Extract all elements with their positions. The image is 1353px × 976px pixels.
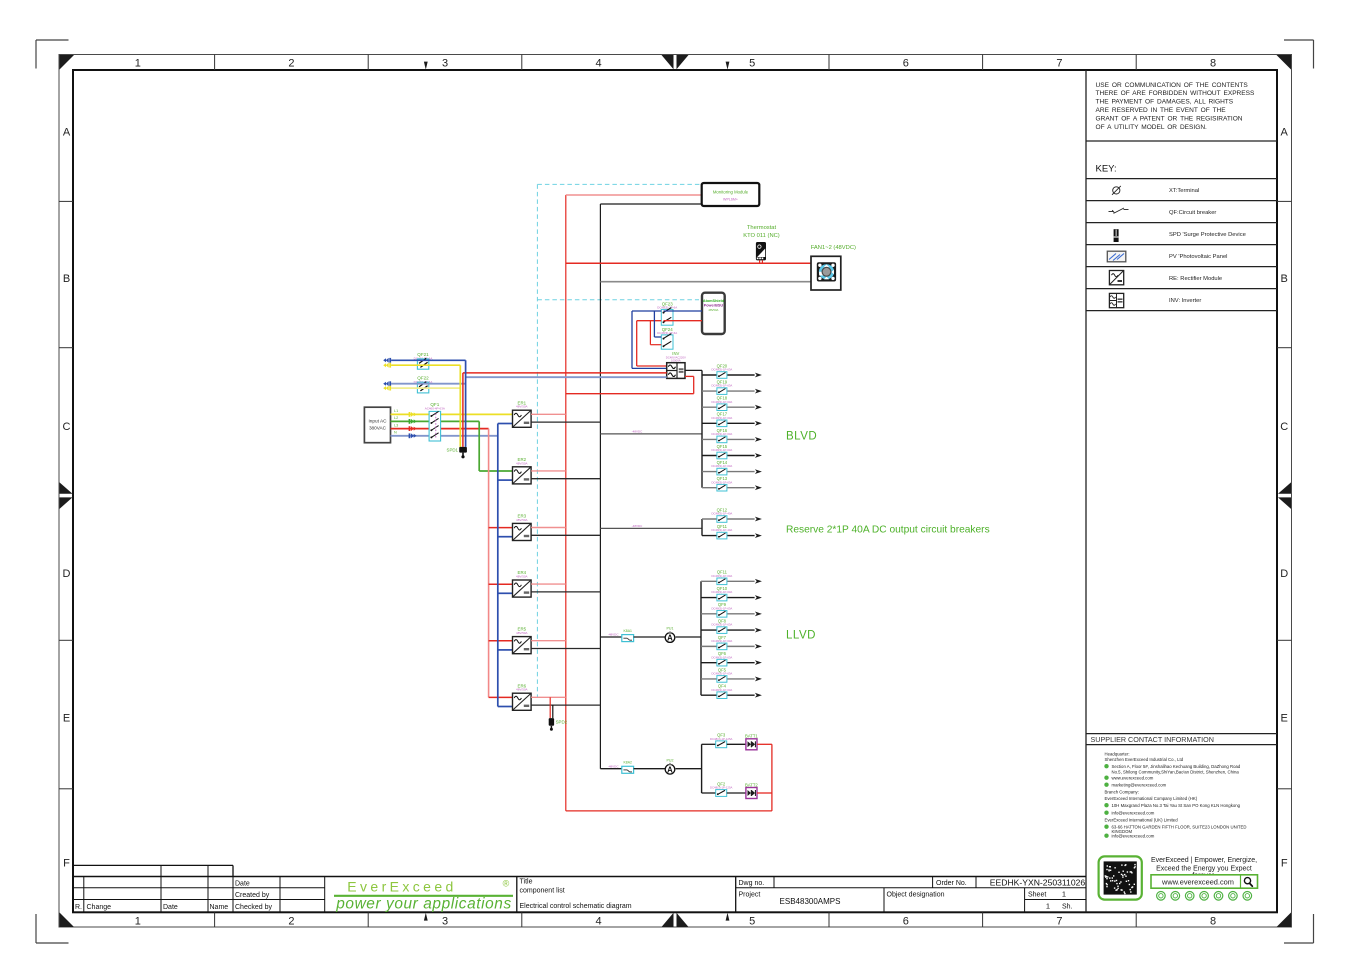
svg-text:A: A <box>667 765 673 774</box>
wire ER3 output - <box>531 534 600 536</box>
svg-text:marketing@everexceed.com: marketing@everexceed.com <box>1112 783 1167 788</box>
centering marks <box>662 55 674 69</box>
svg-text:DC48(3)-1P-63A: DC48(3)-1P-63A <box>711 639 732 643</box>
circuit breaker QF9 output <box>701 602 762 617</box>
svg-text:48V/50A: 48V/50A <box>516 688 528 692</box>
svg-text:KEY:: KEY: <box>1096 164 1117 175</box>
svg-text:EverExceed International (UK: EverExceed International (UK) Limited <box>1105 818 1179 823</box>
svg-text:A: A <box>63 127 71 139</box>
revision table <box>73 864 233 866</box>
svg-text:XT:Terminal: XT:Terminal <box>1169 188 1199 194</box>
svg-text:BATT1: BATT1 <box>745 734 758 739</box>
svg-text:AtomShield: AtomShield <box>703 299 725 303</box>
key symbol RE rectifier <box>1109 271 1123 285</box>
svg-text:10H Maxgrand Plaza No.3 Ta: 10H Maxgrand Plaza No.3 Tai Yau St San P… <box>1112 803 1241 808</box>
svg-text:DC48(3)-1P-63A: DC48(3)-1P-63A <box>711 480 732 484</box>
KEY header box <box>1086 178 1277 180</box>
svg-text:Reserve 2*1P 40A DC output cir: Reserve 2*1P 40A DC output circuit break… <box>786 525 990 536</box>
svg-text:KTO 011 (NC): KTO 011 (NC) <box>743 233 780 239</box>
reserve feeder wire <box>600 527 702 529</box>
svg-text:SPD 'Surge Protective Device: SPD 'Surge Protective Device <box>1169 232 1246 238</box>
circuit breaker QF12 output <box>702 507 762 522</box>
key symbol INV inverter <box>1109 293 1123 307</box>
wire QF24 feed blue <box>653 311 655 337</box>
circuit breaker QF5 output <box>701 667 762 682</box>
wire QF23 to battery monitor (blue) <box>664 310 703 312</box>
wire N to ER1 <box>498 423 513 425</box>
QF21 connectors <box>383 358 390 368</box>
svg-text:DC48(3)-1P-63A: DC48(3)-1P-63A <box>711 688 732 692</box>
svg-text:L3: L3 <box>394 423 398 427</box>
phase labels <box>394 409 398 434</box>
svg-text:Title: Title <box>520 878 533 885</box>
negative DC bus (black) wire <box>599 204 601 769</box>
svg-text:7: 7 <box>1056 916 1062 928</box>
svg-text:PU2: PU2 <box>667 758 674 762</box>
title block outer lines <box>73 876 1086 878</box>
svg-text:8: 8 <box>1210 916 1216 928</box>
wire ER3 output + <box>531 527 566 529</box>
wire N to ER3 <box>498 536 513 538</box>
circuit breaker QF4 output <box>701 684 762 699</box>
wire ER2 output - <box>531 478 600 480</box>
svg-text:Object designation: Object designation <box>887 891 945 898</box>
svg-text:DC48(3)-1P-63A: DC48(3)-1P-63A <box>711 606 732 610</box>
corner fold marks <box>60 55 75 70</box>
svg-text:Date: Date <box>235 880 250 887</box>
svg-text:F: F <box>1281 858 1288 870</box>
svg-text:FAN1~2 (48VDC): FAN1~2 (48VDC) <box>811 245 856 251</box>
svg-text:-48VDC: -48VDC <box>608 633 620 637</box>
AC input source box <box>364 407 390 443</box>
svg-text:ARE RESERVED IN THE EVENT OF T: ARE RESERVED IN THE EVENT OF THE <box>1096 107 1227 114</box>
BLVD feeder wire <box>600 433 702 435</box>
svg-text:BLVD: BLVD <box>786 431 817 443</box>
wire fan + (red) <box>566 262 811 264</box>
svg-text:SUPPLIER CONTACT INFORMATION: SUPPLIER CONTACT INFORMATION <box>1091 735 1214 744</box>
svg-text:Created by: Created by <box>235 892 270 899</box>
cabinet dashed boundary top <box>537 183 701 185</box>
wire L3 to ER3 <box>489 527 513 529</box>
LLVD distribution bus <box>700 581 702 695</box>
circuit breaker QF23 <box>657 301 677 325</box>
circuit breaker QF11 output <box>702 524 762 539</box>
wire ER1 output - <box>531 421 600 423</box>
svg-text:48V/50A: 48V/50A <box>516 631 528 635</box>
wire INV output black <box>685 369 702 371</box>
svg-text:INV: Inverter: INV: Inverter <box>1169 298 1201 304</box>
wire ER6 output + <box>531 696 566 698</box>
svg-text:L1: L1 <box>394 409 398 413</box>
dwg / order cells <box>735 877 737 913</box>
svg-text:-48VDC: -48VDC <box>608 764 620 768</box>
circuit breaker QF19 output <box>702 380 762 395</box>
svg-text:DC48(3)-1P-63A: DC48(3)-1P-63A <box>711 432 732 436</box>
svg-text:R.: R. <box>75 904 82 911</box>
svg-text:DC48(3)-1P-63A: DC48(3)-1P-63A <box>711 400 732 404</box>
svg-text:www.everexceed.com: www.everexceed.com <box>1161 877 1234 886</box>
svg-text:PV 'Photovoltaic Panel: PV 'Photovoltaic Panel <box>1169 254 1227 260</box>
wire ER1 output + <box>531 413 566 415</box>
circuit breaker QF24 <box>657 327 677 349</box>
svg-text:QF:Circuit breaker: QF:Circuit breaker <box>1169 210 1216 216</box>
BLVD distribution bus <box>701 370 703 487</box>
svg-text:D: D <box>1280 568 1288 580</box>
svg-text:-48VDC: -48VDC <box>632 524 644 528</box>
svg-text:THE PAYMENT OF DAMAGES, AL: THE PAYMENT OF DAMAGES, ALL RIGHTS <box>1096 99 1234 106</box>
wire ER4 output - <box>531 591 600 593</box>
svg-text:Change: Change <box>87 904 112 911</box>
svg-text:USE OR COMMUNICATION OF TH: USE OR COMMUNICATION OF THE CONTENTS <box>1096 82 1249 89</box>
shunt K8A1 <box>622 629 634 642</box>
svg-text:GRANT OF A PATENT OR THE: GRANT OF A PATENT OR THE REGISIRATION <box>1096 115 1243 122</box>
svg-text:Name: Name <box>210 904 229 911</box>
wire QF22 blue <box>391 383 466 385</box>
circuit breaker QF11 output <box>701 570 762 585</box>
project cells <box>883 888 885 913</box>
wire QF24 feed red <box>649 321 651 345</box>
wire ammeter2 to battery bus <box>676 768 702 770</box>
surge protective device SPD1 <box>447 447 467 459</box>
wire N (blue) <box>391 435 498 437</box>
circuit breaker QF21 <box>414 352 433 369</box>
QF22 connectors <box>383 381 390 390</box>
rectifier module ER5 <box>513 627 532 654</box>
svg-text:DC48(3)-1P-63A: DC48(3)-1P-63A <box>711 574 732 578</box>
wire L3 to ER6 <box>489 696 513 698</box>
svg-text:A: A <box>667 634 673 643</box>
svg-text:6: 6 <box>903 58 909 70</box>
svg-text:DC48(3)-1P-63A: DC48(3)-1P-63A <box>711 384 732 388</box>
wire L3 (red) <box>391 428 489 430</box>
svg-text:DC48(3)-1P-125A: DC48(3)-1P-125A <box>710 786 733 790</box>
svg-text:SPD1: SPD1 <box>447 447 459 452</box>
riser blue N to rectifiers <box>497 424 499 707</box>
trim marks <box>36 39 69 41</box>
svg-text:component list: component list <box>520 887 565 894</box>
svg-text:Project: Project <box>739 891 761 898</box>
shunt K8A2 <box>622 761 634 774</box>
svg-text:Order No.: Order No. <box>936 880 967 887</box>
wire to monitoring module + <box>566 194 702 196</box>
wire INV output red loop <box>685 375 694 377</box>
svg-text:Monitoring Module: Monitoring Module <box>713 190 749 195</box>
wire ER5 output - <box>531 648 600 650</box>
svg-text:C: C <box>1280 421 1288 433</box>
inverter INV <box>666 351 686 378</box>
wire L3 to ER4 <box>489 583 513 585</box>
battery feeder wire <box>600 768 621 770</box>
wire shunt to ammeter <box>634 636 667 638</box>
wire QF21 blue <box>391 359 466 361</box>
svg-text:B: B <box>63 273 70 285</box>
svg-text:E: E <box>1281 712 1288 724</box>
svg-text:380VAC: 380VAC <box>369 426 387 431</box>
LLVD feeder wire with shunt and ammeter <box>600 636 621 638</box>
svg-text:Checked by: Checked by <box>235 904 272 911</box>
svg-text:DC48(3)-1P-63A: DC48(3)-1P-63A <box>711 590 732 594</box>
svg-text:www.everexceed.com: www.everexceed.com <box>1112 776 1154 781</box>
key symbol SPD <box>1114 229 1119 242</box>
svg-text:EverExceed: EverExceed <box>347 879 456 895</box>
right info panel frame <box>1085 70 1087 912</box>
svg-text:1000VA: 1000VA <box>671 358 681 362</box>
svg-text:Input AC: Input AC <box>369 419 388 424</box>
wire ER4 output + <box>531 583 566 585</box>
circuit breaker QF16 output <box>702 428 762 443</box>
svg-text:EverExceed | Empower, Energize: EverExceed | Empower, Energize, <box>1151 857 1257 864</box>
svg-text:DC48(3)-1P-63A: DC48(3)-1P-63A <box>711 672 732 676</box>
thermostat KTO 011 <box>743 225 780 263</box>
svg-text:BATT2: BATT2 <box>745 782 758 787</box>
svg-text:Sh.: Sh. <box>1062 903 1073 910</box>
svg-text:D: D <box>63 568 71 580</box>
reserve distribution bus <box>701 519 703 536</box>
svg-text:8: 8 <box>1210 58 1216 70</box>
riser red L3 to ER3-ER6 <box>488 429 490 698</box>
svg-text:AC460-4P-63A: AC460-4P-63A <box>425 407 445 411</box>
svg-text:PU1: PU1 <box>667 627 674 631</box>
supplier contact text <box>1104 752 1246 839</box>
key symbol QF circuit breaker <box>1109 208 1129 213</box>
battery return wires (red) <box>757 743 772 745</box>
riser green L2 to ER2 <box>478 421 480 471</box>
magnifier icon <box>1244 878 1252 887</box>
wire QF23 to INV red <box>636 321 638 366</box>
svg-text:LLVD: LLVD <box>786 629 816 641</box>
svg-text:B: B <box>1281 273 1288 285</box>
svg-text:1: 1 <box>1046 901 1050 910</box>
wire L2 (green) <box>391 420 480 422</box>
rectifier module ER3 <box>513 514 532 541</box>
svg-text:K8A1: K8A1 <box>624 629 632 633</box>
wire N to ER4 <box>498 592 513 594</box>
rectifier module ER1 <box>513 400 532 427</box>
positive DC bus (red) wire <box>565 195 567 811</box>
circuit breaker QF14 output <box>702 460 762 475</box>
svg-text:48V50A: 48V50A <box>708 308 718 312</box>
surge protective device SPD2 <box>549 697 568 731</box>
monitoring module U1 <box>702 183 760 206</box>
svg-text:2: 2 <box>288 58 294 70</box>
svg-text:4: 4 <box>596 916 602 928</box>
wire ER6 output - <box>531 704 600 706</box>
svg-text:5: 5 <box>749 58 755 70</box>
wire bus to monitoring module <box>600 203 701 205</box>
circuit breaker QF22 <box>414 376 433 393</box>
circuit breaker QF1 (4P) <box>425 402 445 441</box>
fan FAN1-2 <box>811 245 856 290</box>
circuit breaker QF10 output <box>701 586 762 601</box>
key symbol PV panel <box>1107 251 1126 262</box>
wire N to ER2 <box>498 479 513 481</box>
svg-text:Date: Date <box>163 904 178 911</box>
rectifier module ER6 <box>513 683 532 710</box>
svg-text:K8A2: K8A2 <box>624 761 632 765</box>
circuit breaker QF13 output <box>702 476 762 491</box>
svg-text:C: C <box>63 421 71 433</box>
wire QF22 yellow <box>391 387 460 389</box>
svg-text:4: 4 <box>596 58 602 70</box>
key table rows <box>1086 200 1277 202</box>
wire QF23 to battery monitor (red) <box>664 320 703 322</box>
svg-text:7: 7 <box>1056 58 1062 70</box>
riser red <box>462 373 464 447</box>
svg-text:3: 3 <box>442 916 448 928</box>
battery bus <box>701 744 703 793</box>
svg-text:Exceed the Energy you Expect: Exceed the Energy you Expect <box>1156 865 1252 872</box>
cabinet dashed boundary vertical <box>536 184 538 697</box>
svg-text:1: 1 <box>135 58 141 70</box>
wire AC bus to INV (red) <box>463 372 667 374</box>
wire ammeter to LLVD bus <box>676 636 701 638</box>
svg-text:1: 1 <box>1062 890 1066 899</box>
svg-text:WPL6M+: WPL6M+ <box>723 198 738 202</box>
ammeter PA1 <box>665 627 675 643</box>
svg-text:THERE OF ARE FORBIDDEN WIT: THERE OF ARE FORBIDDEN WITHOUT EXPRESS <box>1096 90 1256 97</box>
svg-text:®: ® <box>503 879 510 889</box>
disclaimer box <box>1086 140 1277 142</box>
circuit breaker QF20 output <box>702 363 762 378</box>
svg-text:3: 3 <box>442 58 448 70</box>
svg-text:Thermostat: Thermostat <box>747 225 777 231</box>
svg-text:Shenzhen EverExceed Industrial: Shenzhen EverExceed Industrial Co., Ltd <box>1105 757 1184 762</box>
cabinet dashed boundary mid <box>537 299 699 301</box>
svg-text:Dwg no.: Dwg no. <box>739 880 765 887</box>
website search box <box>1151 875 1258 888</box>
wire ER2 output + <box>531 470 566 472</box>
svg-text:info@everexceed.com: info@everexceed.com <box>1112 834 1155 839</box>
svg-text:A: A <box>1281 127 1289 139</box>
circuit breaker QF15 output <box>702 444 762 459</box>
svg-text:power your applications: power your applications <box>335 896 512 913</box>
battery monitor module (PowerShield) <box>702 293 725 334</box>
riser yellow <box>459 365 461 447</box>
svg-text:DC48(3)-1P-63A: DC48(3)-1P-63A <box>711 623 732 627</box>
svg-text:48V/50A: 48V/50A <box>516 405 528 409</box>
svg-text:Electrical control schematic d: Electrical control schematic diagram <box>520 903 632 910</box>
svg-text:48V/50A: 48V/50A <box>516 575 528 579</box>
EverExceed logo cell <box>516 877 518 913</box>
social icons <box>1157 892 1252 901</box>
wire fan - (gray) <box>600 281 811 283</box>
svg-text:info@everexceed.com: info@everexceed.com <box>1112 811 1155 816</box>
svg-text:DC48(3)-1P-40A: DC48(3)-1P-40A <box>711 512 732 516</box>
svg-text:OF A UTILITY MODEL OR DES: OF A UTILITY MODEL OR DESIGN. <box>1096 124 1208 131</box>
svg-text:DC48(3)-1P-63A: DC48(3)-1P-63A <box>711 464 732 468</box>
circuit breaker QF2 + battery BATT2 <box>702 781 759 798</box>
wire N to ER6 <box>498 706 513 708</box>
wire ER5 output + <box>531 640 566 642</box>
circuit breaker QF6 output <box>701 651 762 666</box>
supplier contact information box <box>1086 733 1277 735</box>
QR code <box>1099 856 1142 899</box>
svg-text:EEDHK-YXN-250311026: EEDHK-YXN-250311026 <box>990 878 1086 888</box>
wire shunt2 to ammeter2 <box>634 768 667 770</box>
svg-text:6: 6 <box>903 916 909 928</box>
svg-text:DC48(3)-1P-63A: DC48(3)-1P-63A <box>711 416 732 420</box>
wire N to ER5 <box>498 649 513 651</box>
svg-text:DC48(3)-1P-63A: DC48(3)-1P-63A <box>711 655 732 659</box>
svg-text:SPD2: SPD2 <box>556 720 568 725</box>
svg-text:DC48(3)-1P-125A: DC48(3)-1P-125A <box>710 737 733 741</box>
sheet inner frame <box>73 70 1277 912</box>
svg-text:DC48(3)-1P-40A: DC48(3)-1P-40A <box>711 528 732 532</box>
svg-text:-48VDC: -48VDC <box>632 429 644 433</box>
svg-text:DC48(3)-1P-63A: DC48(3)-1P-63A <box>711 368 732 372</box>
wire AC bus to INV (light blue) <box>466 376 667 378</box>
svg-text:E: E <box>63 712 70 724</box>
svg-text:RE: Rectifier Module: RE: Rectifier Module <box>1169 276 1222 282</box>
circuit breaker QF3 + battery BATT1 <box>702 733 759 750</box>
rectifier module ER4 <box>513 570 532 597</box>
input connectors <box>410 412 417 438</box>
svg-text:F: F <box>63 858 70 870</box>
svg-text:2: 2 <box>288 916 294 928</box>
svg-text:N: N <box>394 431 397 435</box>
svg-text:DC48(3)-1P-63A: DC48(3)-1P-63A <box>711 448 732 452</box>
svg-text:EverExceed International Com: EverExceed International Company Limited… <box>1105 796 1198 801</box>
rectifier module ER2 <box>513 457 532 484</box>
svg-text:48V/50A: 48V/50A <box>516 518 528 522</box>
ammeter PA2 <box>665 758 675 774</box>
riser blue <box>465 360 467 447</box>
key symbol XT terminal <box>1112 186 1121 195</box>
svg-text:Branch Company:: Branch Company: <box>1105 790 1139 795</box>
circuit breaker QF8 output <box>701 619 762 634</box>
svg-text:ESB48300AMPS: ESB48300AMPS <box>780 897 841 906</box>
svg-text:L2: L2 <box>394 416 398 420</box>
svg-text:5: 5 <box>749 916 755 928</box>
wire QF23 to INV blue <box>631 311 633 368</box>
svg-text:1: 1 <box>135 916 141 928</box>
svg-text:Sheet: Sheet <box>1028 892 1046 899</box>
wire QF21 yellow <box>391 364 460 366</box>
circuit breaker QF18 output <box>702 396 762 411</box>
wire L1 (yellow) <box>391 413 513 415</box>
svg-text:Section A, Floor 5#, Jinshalih: Section A, Floor 5#, Jinshalihao Kechuan… <box>1112 764 1241 769</box>
circuit breaker QF17 output <box>702 412 762 427</box>
wire L3 to ER5 <box>489 640 513 642</box>
svg-text:Headquarter:: Headquarter: <box>1105 752 1130 757</box>
svg-text:48V/50A: 48V/50A <box>516 461 528 465</box>
circuit breaker QF7 output <box>701 635 762 650</box>
svg-text:No.5, Shilong Community,ShiYan: No.5, Shilong Community,ShiYan,Bao'an Di… <box>1112 770 1240 775</box>
